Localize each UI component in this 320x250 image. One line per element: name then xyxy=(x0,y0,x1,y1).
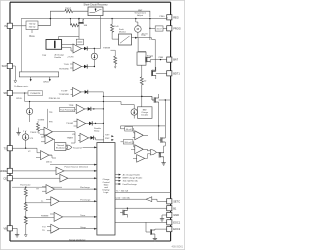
svg-text:Sleep: Sleep xyxy=(80,227,86,229)
arrow out osc 2 xyxy=(49,77,51,79)
pin CE xyxy=(7,176,12,181)
FET B1 driver xyxy=(123,210,128,216)
wire: right rail xyxy=(170,2,172,241)
wire SCR right to rail xyxy=(103,11,150,17)
svg-text:IN: IN xyxy=(4,24,7,28)
FET EOC2 driver xyxy=(150,229,155,235)
vertical x47.6 xyxy=(47,109,49,128)
svg-text:7 V: 7 V xyxy=(23,131,27,133)
pin SETC xyxy=(167,199,172,204)
svg-text:Sleep: Sleep xyxy=(94,131,100,133)
svg-text:BDT1: BDT1 xyxy=(173,71,180,75)
svg-text:AC Charge Enable: AC Charge Enable xyxy=(123,174,141,177)
box thermal shutdown xyxy=(55,143,66,151)
wire B1 pin row xyxy=(115,207,167,209)
wire SR pin xyxy=(12,92,28,94)
switch inside SCR box xyxy=(90,12,95,14)
gnd pin stub xyxy=(162,215,167,217)
box NMT latch xyxy=(137,52,146,65)
svg-text:SCP: SCP xyxy=(2,64,8,68)
current source left mid xyxy=(26,108,32,114)
MODE buffer xyxy=(12,170,56,172)
arrows into box top xyxy=(102,135,105,137)
svg-text:NiMH Charge Enable: NiMH Charge Enable xyxy=(123,177,143,180)
current source bat disable xyxy=(131,109,137,115)
svg-text:SR: SR xyxy=(3,91,7,95)
resistor T1 feed xyxy=(37,123,40,131)
svg-text:B1: B1 xyxy=(173,206,177,210)
svg-text:Pulldown resis.: Pulldown resis. xyxy=(14,85,28,88)
FET M2 xyxy=(151,71,156,77)
svg-text:EOC2: EOC2 xyxy=(173,227,181,231)
CE buffer xyxy=(12,177,60,179)
svg-text:100 Ω: 100 Ω xyxy=(65,9,71,11)
svg-text:TCOMP: TCOMP xyxy=(61,90,68,92)
svg-text:Enable: Enable xyxy=(55,57,62,59)
big box charge control logic xyxy=(97,143,115,235)
rail1 horizontal y18 xyxy=(21,18,167,20)
svg-text:Adjust: Adjust xyxy=(137,14,143,17)
svg-text:+VCHG: +VCHG xyxy=(67,57,74,59)
svg-text:PUSHBTN: PUSHBTN xyxy=(30,93,40,95)
svg-text:PROG: PROG xyxy=(173,26,181,30)
svg-text:Charge: Charge xyxy=(103,178,111,181)
wires into OR xyxy=(66,146,67,149)
resistor 1k drop xyxy=(111,19,113,25)
wire gate riser xyxy=(138,38,155,71)
svg-text:TC − 300 mA: TC − 300 mA xyxy=(116,190,129,193)
svg-text:TPB: TPB xyxy=(49,112,52,114)
svg-text:Control: Control xyxy=(103,181,110,184)
wire TS pin xyxy=(12,147,37,149)
svg-text:At Charge: At Charge xyxy=(55,53,65,56)
svg-text:GND: GND xyxy=(173,213,179,217)
ground TS top xyxy=(16,130,20,135)
svg-text:PDET: PDET xyxy=(105,138,110,140)
svg-text:PBAT: PBAT xyxy=(159,56,164,59)
wire SCP pin stub to arrow xyxy=(12,66,15,80)
svg-text:TCHG: TCHG xyxy=(64,64,70,66)
svg-text:TWAKE: TWAKE xyxy=(67,137,74,140)
wire peak out step xyxy=(132,37,152,39)
wire top A1 from border xyxy=(121,126,166,129)
svg-text:VB: VB xyxy=(4,226,8,230)
svg-text:4060 BD01: 4060 BD01 xyxy=(172,247,184,249)
pin BAT xyxy=(167,57,172,62)
svg-text:Thermistor: Thermistor xyxy=(20,184,31,187)
wire M1 to BAT pin xyxy=(150,56,167,62)
wire to bat disable xyxy=(121,102,134,119)
box 200mV xyxy=(123,140,133,144)
svg-text:TSW: TSW xyxy=(42,55,46,57)
box oscillator xyxy=(19,72,58,77)
svg-text:Shutdown: Shutdown xyxy=(56,146,65,149)
svg-text:TSENSE: TSENSE xyxy=(103,48,111,50)
box 40mV xyxy=(125,127,133,131)
wire rail1 drop to osc box xyxy=(20,19,22,72)
diode A xyxy=(84,46,87,50)
box charge pump with bars xyxy=(46,40,62,50)
box peak detector xyxy=(119,34,132,45)
gate drop wire xyxy=(78,25,80,39)
pin EOC2 xyxy=(167,227,172,232)
rail to M3 gate xyxy=(103,96,154,100)
opamp A1 xyxy=(135,131,144,140)
svg-text:Monitor: Monitor xyxy=(119,30,126,33)
wire 3.6V left drop xyxy=(149,19,151,40)
wire: bottom rail xyxy=(10,240,171,242)
box input divider xyxy=(26,21,38,30)
pin VB xyxy=(7,226,12,231)
svg-text:RSNS: RSNS xyxy=(29,36,35,38)
box 3.6V xyxy=(155,26,163,31)
svg-text:EOC1: EOC1 xyxy=(173,220,181,224)
svg-text:Signal Deglitcher: Signal Deglitcher xyxy=(69,238,86,241)
arrowheads into big box xyxy=(94,146,96,148)
vertical collector x103.4 xyxy=(102,92,104,143)
wire opampB out xyxy=(82,66,95,68)
arrow out osc 1 xyxy=(30,77,32,79)
label below divider box xyxy=(31,30,33,33)
figure frame xyxy=(0,0,184,249)
svg-text:REG: REG xyxy=(173,15,179,19)
svg-text:Term: Term xyxy=(80,214,85,217)
OR gate suspend xyxy=(67,145,72,150)
pin EOC1 xyxy=(167,220,172,225)
svg-text:Fast Precharge: Fast Precharge xyxy=(60,109,75,112)
VB pin ground xyxy=(12,228,17,232)
opamp A2 xyxy=(135,145,144,154)
svg-text:Suspend: Suspend xyxy=(73,147,82,149)
pin REG xyxy=(167,15,172,20)
svg-text:750 kΩ: 750 kΩ xyxy=(29,23,36,25)
svg-text:C/10 − 100 mA: C/10 − 100 mA xyxy=(116,196,131,199)
wire: top rail xyxy=(10,1,171,3)
svg-text:MODE: MODE xyxy=(0,169,7,173)
wire divider to riser xyxy=(38,19,50,26)
svg-text:300 kΩ: 300 kΩ xyxy=(29,27,36,29)
svg-text:SETC: SETC xyxy=(173,199,180,203)
pin BDT1 xyxy=(167,71,172,76)
svg-text:TSLEEP: TSLEEP xyxy=(66,123,74,125)
pin B1 xyxy=(167,206,172,211)
svg-text:Power Source Detection: Power Source Detection xyxy=(65,165,89,168)
wire 3.6V box to PROG pin xyxy=(163,27,167,29)
svg-text:300 mA/700 mA: 300 mA/700 mA xyxy=(123,180,139,183)
motor circle M xyxy=(135,26,142,33)
svg-text:Recharge: Recharge xyxy=(80,186,90,189)
box short-circuit recovery xyxy=(88,7,103,16)
current source TS xyxy=(22,134,28,140)
pin SR xyxy=(7,90,12,95)
FET Q3 xyxy=(161,137,166,143)
resistor R1 top feed xyxy=(65,10,73,13)
wire box2 to opampA xyxy=(62,45,73,52)
wire M drop xyxy=(136,19,138,38)
pin IN xyxy=(7,23,12,28)
gate resistor xyxy=(71,24,79,27)
wire SCR left feed xyxy=(50,11,88,18)
series pass FET on rail1 xyxy=(78,19,84,24)
wire: left rail xyxy=(9,2,11,241)
svg-text:RPULL: RPULL xyxy=(16,98,22,100)
rail2 y101.5 xyxy=(25,93,121,102)
pin GND xyxy=(167,212,172,217)
svg-text:TPRE: TPRE xyxy=(69,105,75,107)
svg-text:(56 k): (56 k) xyxy=(46,161,52,163)
svg-text:Disable: Disable xyxy=(141,114,149,116)
svg-text:State: State xyxy=(104,183,110,186)
svg-text:40 mV: 40 mV xyxy=(126,129,133,131)
wire Tsense drop xyxy=(94,16,100,49)
pin MODE xyxy=(7,168,12,173)
svg-text:BAT: BAT xyxy=(173,58,178,62)
box BAT charge disable xyxy=(138,107,153,119)
wire EOC1 row xyxy=(115,221,167,223)
svg-text:PRECHG 100: PRECHG 100 xyxy=(49,98,60,100)
svg-text:TDET: TDET xyxy=(105,135,109,137)
wire opampB inputs xyxy=(70,64,73,68)
svg-text:Short-Circuit Recovery: Short-Circuit Recovery xyxy=(83,3,108,6)
svg-text:TCOMP-END: TCOMP-END xyxy=(59,94,70,96)
svg-text:VCHEM: VCHEM xyxy=(38,119,45,121)
wire M2 to BDT1 pin xyxy=(156,67,167,79)
op-amp A row1 xyxy=(73,44,82,53)
resistor bleed with arrow xyxy=(114,56,117,64)
diode B xyxy=(84,64,87,68)
op-amp T2 xyxy=(45,135,54,144)
wire IN pin to divider box xyxy=(12,25,26,27)
svg-text:TS: TS xyxy=(4,146,8,150)
op-amp T1 xyxy=(44,127,53,136)
FET M1 xyxy=(146,57,151,63)
svg-text:CE: CE xyxy=(3,176,7,180)
svg-text:RCHG-END: RCHG-END xyxy=(59,68,69,70)
svg-text:1 kΩ: 1 kΩ xyxy=(114,26,119,28)
svg-text:Fast/Precharge: Fast/Precharge xyxy=(123,183,138,186)
resistor chain xyxy=(25,187,27,188)
wire opampA out xyxy=(82,48,95,50)
op-amp T3 xyxy=(41,151,50,160)
junction dots rail1 xyxy=(50,18,51,19)
buffer setc reversed xyxy=(146,197,152,202)
resistor sense vertical xyxy=(141,65,143,77)
FET M3 xyxy=(154,97,159,103)
FET Q4 xyxy=(159,152,164,158)
svg-text:200 mV: 200 mV xyxy=(125,142,133,144)
box pushbutton label xyxy=(28,91,43,96)
OR gate right xyxy=(150,150,156,155)
opamp A3 xyxy=(137,155,145,163)
wire rail1 to REG pin xyxy=(166,18,168,20)
svg-text:Precharge: Precharge xyxy=(80,198,91,201)
svg-text:TSHDN: TSHDN xyxy=(30,132,37,134)
svg-text:CHLD: CHLD xyxy=(43,82,49,84)
pin TS xyxy=(7,146,12,151)
svg-text:3.6 V: 3.6 V xyxy=(157,29,163,31)
pin PROG xyxy=(167,26,172,31)
svg-text:PREG: PREG xyxy=(159,16,165,18)
svg-text:PPB: PPB xyxy=(49,122,53,124)
pin SCP xyxy=(7,63,12,68)
current source mid xyxy=(91,53,97,59)
op-amp B row2 xyxy=(73,62,82,71)
wire T3 net to box xyxy=(49,155,97,165)
svg-text:RSENSE: RSENSE xyxy=(41,215,49,217)
svg-text:Logic: Logic xyxy=(104,192,109,194)
big box outputs arrows xyxy=(115,175,120,184)
zener box small xyxy=(76,39,83,45)
